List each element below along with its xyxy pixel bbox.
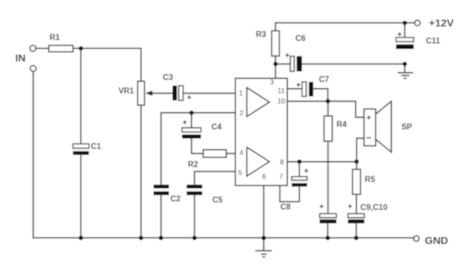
svg-text:11: 11 bbox=[278, 88, 285, 95]
svg-text:C2: C2 bbox=[170, 195, 181, 204]
svg-text:R4: R4 bbox=[337, 120, 348, 129]
svg-text:C7: C7 bbox=[319, 75, 330, 84]
svg-text:C8: C8 bbox=[280, 203, 291, 212]
svg-text:R1: R1 bbox=[50, 33, 61, 42]
svg-text:3: 3 bbox=[270, 80, 274, 87]
svg-text:R2: R2 bbox=[188, 160, 199, 169]
svg-text:IN: IN bbox=[15, 53, 26, 65]
svg-text:R3: R3 bbox=[256, 30, 267, 39]
svg-text:C9,C10: C9,C10 bbox=[360, 203, 388, 212]
svg-text:+12V: +12V bbox=[429, 17, 454, 29]
svg-text:C1: C1 bbox=[91, 142, 102, 151]
svg-text:C6: C6 bbox=[295, 34, 306, 43]
svg-text:5: 5 bbox=[238, 170, 242, 177]
svg-text:C5: C5 bbox=[212, 196, 223, 205]
svg-text:C11: C11 bbox=[426, 37, 441, 46]
svg-text:VR1: VR1 bbox=[118, 87, 134, 96]
svg-text:7: 7 bbox=[279, 174, 283, 181]
svg-text:2: 2 bbox=[239, 111, 243, 118]
svg-text:6: 6 bbox=[262, 174, 266, 181]
svg-text:4: 4 bbox=[239, 150, 243, 157]
svg-text:C3: C3 bbox=[163, 73, 174, 82]
svg-text:8: 8 bbox=[280, 160, 284, 167]
svg-text:GND: GND bbox=[425, 235, 449, 247]
svg-text:SP: SP bbox=[401, 123, 412, 132]
svg-text:10: 10 bbox=[277, 99, 285, 106]
svg-text:R5: R5 bbox=[365, 175, 376, 184]
svg-text:1: 1 bbox=[239, 91, 243, 98]
svg-text:C4: C4 bbox=[211, 123, 222, 132]
